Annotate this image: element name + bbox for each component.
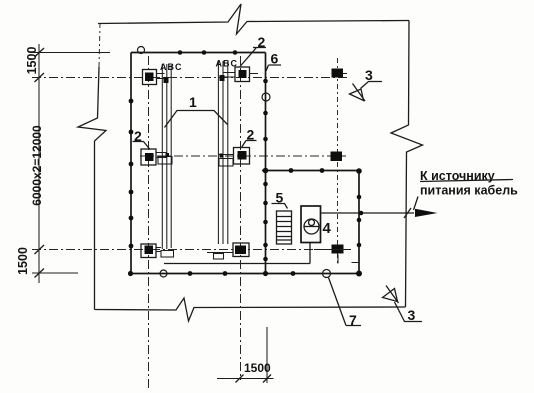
cable arrowhead xyxy=(415,209,438,217)
support S3 mid-left (2) xyxy=(141,149,172,165)
svg-text:1500: 1500 xyxy=(25,47,39,75)
column axis 2 (x=240) xyxy=(240,56,242,380)
extension line 1500 top xyxy=(32,52,110,54)
open circle top fence xyxy=(138,47,145,54)
site boundary bottom wire with break xyxy=(95,298,406,321)
support S6 bottom-right xyxy=(207,243,249,259)
dimension line left xyxy=(38,44,40,283)
electrode dots fence bottom xyxy=(188,271,193,276)
wire mast3 drop xyxy=(338,255,359,264)
tick slash bottom xyxy=(35,269,45,278)
svg-text:1: 1 xyxy=(189,94,197,110)
grounding fence top edge xyxy=(131,52,266,54)
mast M3 xyxy=(332,245,344,254)
svg-text:ABC: ABC xyxy=(160,62,183,72)
tick slash top xyxy=(35,48,45,57)
axis row B (middle) xyxy=(140,155,346,157)
grounding fence bottom edge shared with loop xyxy=(130,273,360,275)
mast M1 (3) xyxy=(332,69,344,78)
slope symbol top (3) xyxy=(350,82,383,102)
open circle bottom fence xyxy=(160,270,167,277)
extension line bottom 1500 xyxy=(32,272,78,274)
electrode dots loop top xyxy=(289,168,294,173)
svg-text:3: 3 xyxy=(365,67,373,83)
tick slash row3 xyxy=(35,245,45,254)
transformer cabinet U1 (4) xyxy=(301,206,321,243)
ground loop right edge xyxy=(358,171,360,274)
busbar group left (1) xyxy=(161,64,163,249)
open circle 7 xyxy=(323,270,331,278)
support S5 bottom-left xyxy=(141,244,174,258)
column axis 3 (x=337) xyxy=(337,58,339,263)
bottom dimension line xyxy=(217,378,274,380)
support S2 top-right (2) xyxy=(220,67,259,82)
svg-text:1500: 1500 xyxy=(244,361,271,375)
svg-text:6000x2=12000: 6000x2=12000 xyxy=(30,125,44,206)
electrode dots fence right xyxy=(263,79,268,84)
bottom dimension extension solid xyxy=(266,327,268,383)
tick slash row1 xyxy=(35,73,45,82)
svg-text:6: 6 xyxy=(271,51,279,67)
mast M2 (3) xyxy=(331,152,343,162)
axis row C (bottom) xyxy=(32,249,351,251)
grounding fence left edge xyxy=(130,53,132,274)
electrode dots fence left xyxy=(129,99,134,104)
svg-text:1500: 1500 xyxy=(16,247,30,275)
svg-text:4: 4 xyxy=(323,220,332,237)
electrode dots fence top xyxy=(178,50,183,55)
slope symbol bottom (3) xyxy=(383,286,423,322)
cable to power source wire xyxy=(321,212,415,214)
open circle right fence xyxy=(262,93,270,101)
crossing tick xyxy=(404,208,411,218)
axis row A (top) xyxy=(32,77,347,79)
site boundary right wire with break xyxy=(391,21,423,308)
cable rack 5 (hatched box) xyxy=(277,211,292,244)
column axis 1 (x=148) xyxy=(148,56,150,390)
ground loop top edge xyxy=(262,170,359,172)
transformer symbol xyxy=(304,219,319,234)
site boundary top wire with break xyxy=(98,4,409,34)
grounding wire to transformer xyxy=(164,263,310,265)
busbar group right (1) xyxy=(217,61,219,244)
support S1 top-left (2) xyxy=(143,70,169,85)
grounding fence right edge xyxy=(265,53,267,274)
bottom tick slashes xyxy=(236,375,272,383)
wire transformer drop xyxy=(309,243,311,264)
svg-text:3: 3 xyxy=(408,307,416,323)
svg-text:питания кабель: питания кабель xyxy=(420,184,518,198)
site boundary left wire with break xyxy=(78,67,106,310)
support S4 mid-right (2) xyxy=(219,148,250,167)
electrode dots loop right xyxy=(357,195,362,200)
